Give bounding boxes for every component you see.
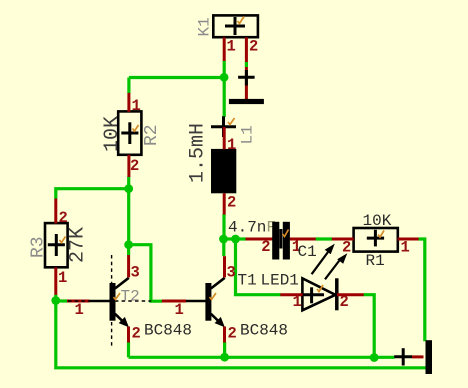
wire: T2 emitter drop to bottom net xyxy=(127,342,130,357)
resistor R3 xyxy=(29,223,90,267)
ground symbol below K1 pin2 xyxy=(229,67,264,104)
T2 dashed crosshair horizontal xyxy=(68,300,151,302)
wire: LED1 cathode right then down to bottom net xyxy=(364,295,375,358)
R2 pin 2 xyxy=(127,155,130,177)
LED light arrow 2 xyxy=(325,259,341,279)
wire: T2 base short green xyxy=(56,299,68,302)
junction node at T2 collector branch xyxy=(124,240,133,249)
transistor T2 (BC848) xyxy=(67,255,192,347)
svg-text:L1: L1 xyxy=(239,125,257,144)
wire: R2 pin2 branch left then down to R3 pin2 xyxy=(56,189,129,199)
junction node at LED branch on bottom net xyxy=(370,353,379,362)
R3 pin 2 xyxy=(54,199,57,224)
svg-text:R3: R3 xyxy=(29,236,49,258)
junction node B (C1 / LED branch) xyxy=(231,235,240,244)
C1 pin 2 xyxy=(246,238,273,241)
connector K1 xyxy=(196,15,258,37)
R1 pin 2 xyxy=(332,238,354,241)
svg-text:1.5mH: 1.5mH xyxy=(187,123,210,183)
T1 base line xyxy=(186,300,206,303)
svg-text:2: 2 xyxy=(261,238,270,256)
T2 dashed crosshair vertical xyxy=(111,255,113,347)
resistor R2 xyxy=(101,111,162,154)
T1 collector line xyxy=(211,278,225,289)
K1 pin 2 xyxy=(245,37,248,62)
svg-text:LED1: LED1 xyxy=(261,272,299,290)
wire: top horizontal net K1 to R2 branch xyxy=(129,76,224,79)
LED light arrow 1 xyxy=(312,252,328,274)
svg-text:1: 1 xyxy=(175,301,184,319)
wire: L1 pin2 down to node xyxy=(222,214,225,239)
LED cathode bar xyxy=(335,278,339,310)
svg-text:1: 1 xyxy=(401,239,410,257)
T2 emitter line with arrow xyxy=(115,314,125,324)
T2 base line xyxy=(89,300,110,303)
wire: lower bottom net from R3 branch to ground bar xyxy=(56,301,426,368)
svg-text:R2: R2 xyxy=(142,124,162,146)
wire: K1 pin2 short green to ground pin xyxy=(245,62,248,67)
svg-text:K1: K1 xyxy=(196,17,214,36)
junction node at R3 / T2 base xyxy=(51,296,60,305)
junction node at R2 pin2 branch xyxy=(124,184,133,193)
LED LED1 xyxy=(261,244,348,311)
junction node at K1 pin1 / top net xyxy=(220,73,229,82)
LED1 pin 1 (anode) xyxy=(280,293,302,296)
resistor R1 xyxy=(354,212,398,270)
svg-text:2: 2 xyxy=(340,293,349,311)
wire: node down to T2 collector xyxy=(127,245,130,256)
K1 pin 1 xyxy=(223,37,226,61)
capacitor C1 xyxy=(228,219,317,262)
T1 emitter line with arrow xyxy=(211,314,221,324)
transistor T1 (BC848) xyxy=(162,272,288,340)
svg-text:4.7nF: 4.7nF xyxy=(228,219,276,237)
svg-text:27K: 27K xyxy=(67,227,90,263)
svg-text:R1: R1 xyxy=(366,252,385,270)
wire: vertical between left nodes xyxy=(127,189,130,245)
inductor L1 xyxy=(187,116,257,193)
wire: R2 pin1 green above resistor xyxy=(127,78,130,94)
T2 collector pin 3 xyxy=(127,255,130,277)
svg-text:3: 3 xyxy=(227,264,236,282)
wire: C1 pin1 to R1 pin2 xyxy=(316,237,333,240)
R2 pin 1 xyxy=(127,93,130,112)
svg-text:2: 2 xyxy=(227,194,236,212)
svg-text:2: 2 xyxy=(132,325,141,343)
wire: T1 emitter drop to bottom net xyxy=(223,342,226,357)
T1 emitter pin 2 xyxy=(223,327,226,343)
svg-text:2: 2 xyxy=(59,209,68,227)
junction node A (L1 / T1 collector) xyxy=(219,235,228,244)
svg-text:BC848: BC848 xyxy=(240,322,288,340)
R1 pin 1 xyxy=(398,238,419,241)
svg-text:1: 1 xyxy=(227,38,236,56)
T2 emitter pin 2 xyxy=(127,327,130,343)
junction node at T1 emitter on bottom net xyxy=(220,353,229,362)
wire: node B to C1 pin2 xyxy=(236,237,246,240)
svg-text:1: 1 xyxy=(58,269,67,287)
svg-text:2: 2 xyxy=(249,38,258,56)
svg-text:2: 2 xyxy=(130,157,139,175)
LED1 pin 2 (cathode) xyxy=(337,293,364,296)
svg-text:T1: T1 xyxy=(238,272,257,290)
svg-text:T2: T2 xyxy=(121,288,140,306)
wire: node A down to T1 collector xyxy=(222,239,225,256)
svg-text:1: 1 xyxy=(132,97,141,115)
svg-text:10K: 10K xyxy=(101,116,124,152)
svg-text:1: 1 xyxy=(227,136,236,154)
wire: R3 pin1 short green to node xyxy=(54,295,57,301)
svg-text:3: 3 xyxy=(131,264,140,282)
ground symbol bottom right xyxy=(394,340,432,374)
wire: node B down then right to LED1 anode xyxy=(236,239,281,295)
wire: node A to node B horizontal xyxy=(222,237,237,240)
svg-text:C1: C1 xyxy=(298,243,317,261)
wire: T2 collector node right then down to T1 base xyxy=(129,245,162,302)
wire: R1 pin1 right then down to ground bar xyxy=(418,239,424,341)
L1 pin 1 xyxy=(223,127,226,149)
svg-text:1: 1 xyxy=(293,293,302,311)
svg-text:2: 2 xyxy=(228,325,237,343)
R3 pin 1 xyxy=(54,267,57,295)
C1 pin 1 xyxy=(290,238,316,241)
svg-text:BC848: BC848 xyxy=(144,322,192,340)
T2 collector line xyxy=(115,278,129,289)
wire: bottom emitter net horizontal xyxy=(129,356,395,359)
T1 collector pin 3 xyxy=(223,256,226,277)
T2 bar xyxy=(110,283,116,321)
L1 pin 2 xyxy=(223,193,226,214)
wire: R2 pin2 short green above node xyxy=(127,177,130,189)
T1 base pin xyxy=(162,300,187,303)
svg-text:1: 1 xyxy=(75,301,84,319)
wire: vertical K1 pin1 down to L1 xyxy=(223,61,226,117)
T1 bar xyxy=(205,283,211,321)
T2 base pin xyxy=(67,300,90,303)
svg-text:10K: 10K xyxy=(363,212,392,230)
